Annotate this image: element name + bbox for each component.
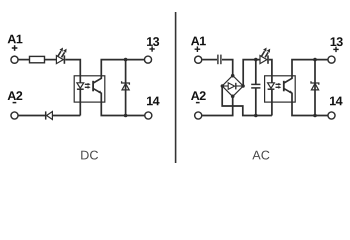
LED indicator (DC) — [56, 56, 63, 64]
optocoupler U1 box (DC) — [74, 76, 105, 102]
wire bridge right corner up to top rail — [243, 60, 260, 86]
bridge rectifier B1 diamond (AC) — [222, 76, 243, 97]
zener diode Z2 (AC) — [311, 81, 319, 85]
node: junction dot top (zener tap, DC) — [124, 58, 128, 62]
wire zener branch vertical (AC) — [314, 60, 316, 116]
wire bridge left corner (DC-) jog to bottom rail — [222, 86, 272, 116]
label A2 (right) — [191, 91, 206, 100]
emitter arrowhead — [99, 90, 102, 93]
wire zener branch vertical — [125, 60, 127, 116]
caption DC — [81, 151, 98, 160]
phototransistor Q2 (AC) — [283, 81, 285, 92]
opto LED (AC) — [268, 83, 275, 88]
wire A2 to diode — [19, 115, 46, 117]
wire resistor to LED — [45, 59, 57, 61]
plus sign at 13 (right) — [333, 47, 338, 52]
label A2 (left) — [8, 91, 23, 100]
node: bridge right corner dot — [241, 84, 245, 88]
bridge inner diode — [224, 85, 229, 87]
label 13 (right) — [331, 37, 343, 46]
optocoupler U2 box (AC) — [265, 76, 296, 102]
wire A1 to capacitor — [202, 59, 217, 61]
terminal A2 (right) — [195, 112, 202, 119]
terminal A2 (left) — [11, 112, 18, 119]
wire A1 to resistor — [19, 59, 30, 61]
node: junction dot cap top (AC) — [254, 58, 258, 62]
LED arrows (DC) — [58, 48, 67, 58]
minus sign at A2 (left) — [13, 102, 17, 104]
terminal A1 (left) — [11, 56, 18, 63]
plus sign at 13 (left) — [149, 46, 154, 51]
emitter arrowhead (AC) — [289, 90, 292, 93]
terminal 14 (left) — [145, 112, 152, 119]
node: bridge bottom corner dot — [231, 95, 235, 99]
emitter wire down to rail 14 (AC) — [284, 89, 327, 116]
wire diode to opto LED vertical — [52, 115, 80, 117]
label 13 (left) — [147, 37, 159, 46]
opto coupling arrows (DC) — [85, 83, 91, 89]
divider between DC and AC panels — [175, 12, 177, 163]
opto coupling arrows (AC) — [276, 83, 282, 89]
terminal 13 (left) — [144, 56, 151, 63]
wire opto LED cathode vertical (AC) — [271, 89, 273, 115]
wire LED to corner, down into optocoupler — [65, 60, 80, 83]
node: bridge left corner dot — [221, 84, 225, 88]
resistor R1 — [30, 56, 45, 62]
caption AC — [252, 151, 269, 160]
node: junction dot cap bottom (AC) — [254, 114, 258, 118]
phototransistor Q1 (DC) — [92, 81, 94, 92]
zener diode Z1 (DC) — [122, 81, 130, 85]
label 14 (left) — [147, 97, 160, 106]
node: junction dot bottom (zener, AC) — [313, 114, 317, 118]
label 14 (right) — [330, 97, 343, 106]
capacitor C1 series (AC) — [217, 55, 219, 65]
wire capacitor to bridge top corner — [222, 60, 233, 76]
terminal 14 (right) — [328, 112, 335, 119]
plus sign at A1 (right) — [195, 46, 201, 52]
collector wire up to rail 13 — [94, 60, 145, 83]
LED arrows (AC) — [262, 48, 271, 58]
terminal A1 (right) — [195, 56, 202, 63]
wire LED to corner, down into optocoupler (AC) — [269, 60, 272, 83]
node: junction dot top (zener tap, AC) — [313, 58, 317, 62]
opto LED (DC) — [77, 83, 84, 88]
terminal 13 (right) — [328, 56, 335, 63]
label A1 (left) — [8, 35, 23, 44]
emitter wire down to rail 14 — [94, 89, 145, 116]
plus sign at A1 (left) — [12, 45, 18, 51]
node: junction dot bottom (zener, DC) — [124, 114, 128, 118]
parallel capacitor C2 (AC) — [255, 60, 257, 85]
collector wire up to rail 13 (AC) — [284, 60, 327, 83]
wire opto LED cathode down to A2 rail — [79, 89, 81, 115]
diode D1 reverse-protection (DC) — [45, 111, 47, 119]
label A1 (right) — [191, 37, 206, 46]
wire A2 to bridge bottom corner — [202, 97, 233, 116]
node: bridge top corner dot — [231, 74, 235, 78]
LED indicator (AC) — [260, 56, 267, 64]
minus sign at A2 (right) — [196, 102, 200, 104]
